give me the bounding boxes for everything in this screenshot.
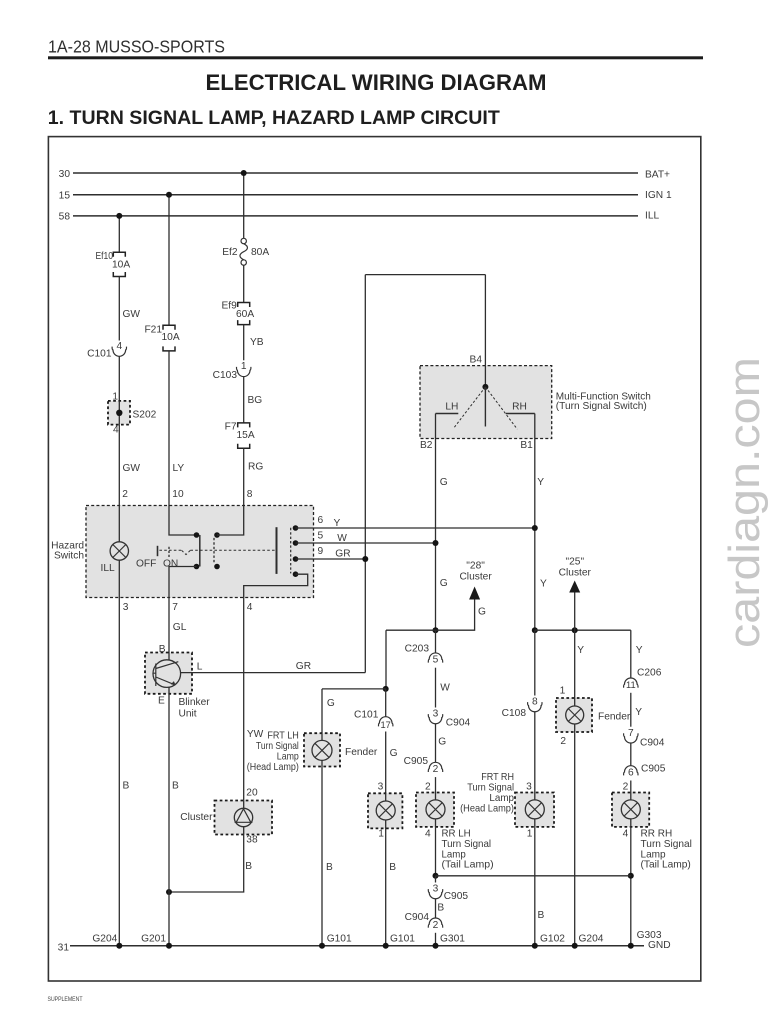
svg-text:80A: 80A: [251, 247, 269, 258]
svg-text:30: 30: [59, 169, 71, 180]
wire to RR LH tail lamp: [435, 777, 437, 800]
fuse Ef10 10A: [113, 252, 125, 276]
wire column1 from 58 line to fuse Ef10: [118, 216, 120, 252]
svg-text:G204: G204: [92, 933, 117, 944]
wire column3 from 30 line to fusible link Ef2: [243, 173, 245, 238]
svg-text:G: G: [438, 736, 446, 747]
svg-text:10A: 10A: [162, 332, 180, 343]
svg-text:G: G: [478, 607, 486, 618]
wire tail lamp ground tie: [436, 875, 631, 877]
ground G201: [166, 943, 172, 949]
svg-text:GL: GL: [173, 622, 187, 633]
RR RH turn signal lamp (tail lamp): [612, 793, 649, 827]
ground G101 fender: [319, 943, 325, 949]
ground bus 31: [70, 945, 644, 947]
svg-text:FRT RH: FRT RH: [481, 772, 514, 783]
svg-text:B: B: [172, 781, 179, 792]
svg-text:(Head Lamp): (Head Lamp): [247, 762, 299, 773]
hazard switch lever: [157, 546, 159, 556]
svg-text:GR: GR: [335, 549, 350, 560]
svg-text:GW: GW: [123, 309, 141, 320]
wire W below C203: [435, 668, 437, 708]
svg-text:(Tail Lamp): (Tail Lamp): [641, 860, 691, 871]
FRT RH turn signal lamp (head lamp): [515, 793, 554, 827]
svg-text:G102: G102: [540, 933, 565, 944]
hazard switch: [86, 506, 314, 598]
svg-text:BAT+: BAT+: [645, 169, 670, 180]
ground G301: [433, 943, 439, 949]
wire branch to LH fender lamp: [322, 688, 386, 690]
FRT LH turn signal lamp (head lamp): [368, 793, 402, 828]
cluster 25 arrow: [572, 627, 578, 633]
svg-text:Unit: Unit: [179, 709, 197, 720]
svg-text:BG: BG: [248, 395, 263, 406]
wire to RR RH tail lamp: [630, 781, 632, 801]
svg-text:10A: 10A: [112, 259, 130, 270]
svg-text:Y: Y: [636, 645, 643, 656]
svg-text:2: 2: [425, 782, 431, 793]
svg-text:(Turn Signal Switch): (Turn Signal Switch): [556, 401, 647, 412]
wire GR loop right vertical to turn signal switch B4: [484, 275, 486, 387]
svg-text:Blinker: Blinker: [179, 697, 211, 708]
svg-text:RR LH: RR LH: [442, 829, 471, 840]
svg-text:B: B: [245, 861, 252, 872]
hazard switch pin 7 contact to box bottom: [169, 567, 197, 598]
bus line 30 BAT+: [73, 172, 638, 174]
svg-text:C203: C203: [405, 644, 430, 655]
connector C108 pin 8: [534, 630, 536, 695]
svg-text:Fender: Fender: [345, 747, 378, 758]
svg-text:C108: C108: [502, 708, 527, 719]
svg-text:1: 1: [378, 829, 384, 840]
svg-text:(Tail Lamp): (Tail Lamp): [442, 860, 494, 871]
svg-text:G: G: [440, 578, 448, 589]
wire B to ground G101: [385, 820, 387, 946]
svg-text:6: 6: [628, 768, 634, 779]
turn signal switch LH contact B2: [436, 413, 459, 415]
hazard pin 9 wire GR to flasher loop: [296, 558, 366, 560]
svg-text:cardiagn.com: cardiagn.com: [720, 357, 768, 648]
svg-text:Lamp: Lamp: [489, 793, 514, 804]
wire from C101 to splice S202: [118, 357, 120, 401]
svg-text:GW: GW: [123, 463, 141, 474]
wire B from fender lamp to ground G101: [321, 760, 323, 945]
svg-text:1: 1: [527, 829, 533, 840]
svg-text:G204: G204: [579, 933, 604, 944]
wire B from cluster pin 38 to G201 column: [169, 827, 244, 892]
svg-text:3: 3: [433, 708, 439, 719]
svg-text:Ef2: Ef2: [222, 247, 238, 258]
connector C905 pin 3: [435, 876, 437, 883]
svg-text:ON: ON: [163, 558, 178, 569]
svg-text:F21: F21: [144, 325, 162, 336]
svg-text:C101: C101: [87, 349, 112, 360]
hazard pin 5 wire W to LH column: [296, 542, 436, 544]
svg-text:20: 20: [246, 788, 258, 799]
svg-text:IGN 1: IGN 1: [645, 190, 672, 201]
svg-text:10: 10: [172, 489, 184, 500]
connector C905 pin 6: [624, 766, 638, 776]
wire GW to hazard switch pin 2: [118, 425, 120, 506]
svg-text:F7: F7: [225, 421, 237, 432]
connector C203 pin 5: [435, 630, 437, 653]
svg-text:60A: 60A: [236, 309, 254, 320]
svg-text:3: 3: [378, 781, 384, 792]
hazard switch pin 4 path to box bottom: [244, 574, 308, 597]
svg-text:Cluster: Cluster: [459, 572, 492, 583]
svg-text:LY: LY: [173, 463, 185, 474]
svg-text:Turn Signal: Turn Signal: [641, 839, 692, 850]
svg-text:B: B: [437, 903, 444, 914]
wire GR loop left vertical: [364, 275, 366, 673]
svg-text:Cluster: Cluster: [180, 812, 213, 823]
connector C206 pin 11: [624, 678, 638, 688]
svg-text:(Head Lamp): (Head Lamp): [460, 803, 514, 814]
svg-text:7: 7: [172, 602, 178, 613]
svg-text:31: 31: [58, 942, 70, 953]
svg-text:RR RH: RR RH: [641, 829, 673, 840]
svg-text:ILL: ILL: [645, 210, 659, 221]
svg-text:1: 1: [560, 686, 566, 697]
svg-text:4: 4: [623, 829, 629, 840]
junction Y wire: [532, 627, 538, 633]
wire G below C904: [435, 724, 437, 762]
connector C904 pin 2: [428, 918, 442, 928]
wire GR loop top: [365, 274, 485, 276]
svg-text:C904: C904: [640, 737, 665, 748]
svg-text:9: 9: [318, 546, 324, 557]
wire RR LH lamp pin4 to tail ground junction: [435, 819, 437, 876]
svg-text:B: B: [538, 910, 545, 921]
ground G204 right: [572, 943, 578, 949]
svg-text:W: W: [440, 683, 450, 694]
svg-text:Fender: Fender: [598, 712, 631, 723]
bus line 15 IGN 1: [73, 194, 638, 196]
svg-text:G301: G301: [440, 933, 465, 944]
svg-text:Cluster: Cluster: [559, 567, 592, 578]
svg-text:Y: Y: [334, 518, 341, 529]
RR LH turn signal lamp (tail lamp): [416, 793, 454, 827]
svg-text:C904: C904: [446, 717, 471, 728]
svg-text:G101: G101: [390, 933, 415, 944]
svg-text:"25": "25": [566, 556, 585, 567]
svg-text:4: 4: [425, 829, 431, 840]
wire from fender lamp to ground G204: [574, 724, 576, 946]
svg-text:L: L: [197, 661, 203, 672]
svg-text:E: E: [158, 695, 165, 706]
svg-text:2: 2: [560, 736, 566, 747]
svg-text:5: 5: [318, 530, 324, 541]
fuse F7 15A: [238, 423, 250, 448]
svg-text:4: 4: [247, 602, 253, 613]
svg-text:YB: YB: [250, 337, 264, 348]
wire Y to RH fender lamp: [574, 630, 576, 706]
turn signal switch dashed positions LH RH: [454, 387, 486, 428]
fuse F21 10A: [163, 325, 175, 351]
svg-text:Y: Y: [577, 645, 584, 656]
svg-text:B: B: [123, 781, 130, 792]
svg-text:Lamp: Lamp: [277, 752, 299, 763]
connector C905 pin 2: [428, 762, 442, 772]
svg-text:Turn Signal: Turn Signal: [442, 839, 492, 850]
svg-text:B2: B2: [420, 440, 433, 451]
wire B to ground G102: [534, 819, 536, 946]
svg-text:S202: S202: [133, 409, 157, 420]
ground G303 GND: [628, 943, 634, 949]
svg-text:15A: 15A: [237, 430, 255, 441]
svg-text:B: B: [389, 862, 396, 873]
svg-text:Ef10: Ef10: [96, 251, 114, 262]
svg-text:2: 2: [623, 782, 629, 793]
svg-text:11: 11: [626, 680, 636, 690]
svg-text:1: 1: [241, 361, 247, 372]
svg-text:Y: Y: [537, 477, 544, 488]
wire branch to cluster 28 arrow: [386, 600, 475, 631]
wire L output GR to flasher loop: [181, 672, 366, 674]
svg-text:4: 4: [113, 425, 119, 436]
hazard switch ON bridge: [199, 535, 201, 567]
svg-text:YW: YW: [247, 729, 264, 740]
svg-text:C904: C904: [405, 912, 430, 923]
wire G to FRT LH head lamp: [385, 732, 387, 802]
svg-text:B: B: [326, 862, 333, 873]
svg-text:W: W: [337, 533, 347, 544]
svg-text:7: 7: [628, 728, 634, 739]
LH fender lamp: [304, 733, 340, 766]
wire GW below Ef10: [118, 277, 120, 341]
wire E to ground G201: [168, 687, 170, 945]
svg-text:8: 8: [532, 696, 538, 707]
header rule: [48, 56, 703, 59]
svg-text:C101: C101: [354, 709, 379, 720]
hazard switch ILL lamp: [118, 506, 120, 543]
svg-text:6: 6: [318, 515, 324, 526]
hazard switch contact pin 10 side: [169, 506, 197, 536]
svg-text:C103: C103: [213, 370, 238, 381]
wire B below C905: [435, 899, 437, 918]
svg-text:Ef9: Ef9: [222, 300, 238, 311]
svg-text:G: G: [390, 748, 398, 759]
wire LY to hazard switch pin 10: [168, 351, 170, 506]
junction G wire / cluster 28 branch: [433, 627, 439, 633]
svg-text:GR: GR: [296, 661, 311, 672]
svg-text:8: 8: [247, 489, 253, 500]
svg-text:38: 38: [246, 835, 258, 846]
fusible link Ef2 80A: [241, 238, 246, 243]
connector C101 pin 17: [385, 689, 387, 717]
svg-text:B4: B4: [470, 355, 483, 366]
svg-text:C905: C905: [444, 891, 469, 902]
svg-text:Switch: Switch: [54, 551, 84, 562]
wire to FRT RH head lamp: [534, 712, 536, 800]
wire hazard pin 3 to ground G204: [118, 560, 120, 946]
wire below C904: [630, 743, 632, 765]
svg-text:G: G: [440, 477, 448, 488]
svg-text:ELECTRICAL WIRING DIAGRAM: ELECTRICAL WIRING DIAGRAM: [206, 70, 547, 95]
svg-text:15: 15: [59, 190, 71, 201]
hazard switch output dashed link: [290, 528, 292, 574]
wire RG to hazard switch pin 8: [243, 448, 245, 505]
svg-text:Turn Signal: Turn Signal: [256, 741, 299, 752]
wire GL hazard pin7 to blinker unit: [168, 598, 170, 661]
RH fender lamp: [556, 698, 592, 732]
svg-text:3: 3: [123, 602, 129, 613]
hazard switch common bar: [276, 527, 278, 574]
hazard pin 6 wire Y to RH column: [296, 527, 535, 529]
svg-text:RG: RG: [248, 462, 263, 473]
svg-text:2: 2: [433, 920, 439, 931]
svg-text:OFF: OFF: [136, 558, 156, 569]
svg-text:C905: C905: [404, 756, 429, 767]
wire RR RH pin4 down to ground G303: [630, 819, 632, 946]
svg-text:58: 58: [59, 212, 71, 223]
wire YW hazard pin4 to cluster pin 20: [243, 598, 245, 809]
svg-text:C905: C905: [641, 763, 666, 774]
svg-text:RH: RH: [512, 401, 527, 412]
turn signal switch common pivot: [482, 384, 488, 390]
ground G101 head lamp: [383, 943, 389, 949]
svg-text:Y: Y: [635, 707, 642, 718]
wire Y down right branch: [630, 630, 632, 678]
hazard switch pin 8 contact: [217, 506, 244, 536]
wire G from B2 down to junction with W: [435, 414, 437, 631]
wire Y from B1 down: [534, 414, 536, 631]
svg-text:G: G: [327, 698, 335, 709]
wire Y branch to 25 cluster and RH lamps: [535, 629, 631, 631]
svg-text:FRT LH: FRT LH: [267, 731, 298, 742]
wire Y below C206: [630, 693, 632, 727]
diagram border frame: [48, 137, 700, 981]
svg-text:ILL: ILL: [101, 563, 115, 574]
svg-text:17: 17: [381, 720, 391, 730]
wire column2 from 15 line to fuse F21: [168, 195, 170, 326]
svg-text:G201: G201: [141, 933, 166, 944]
svg-text:3: 3: [433, 883, 439, 894]
svg-text:1A-28 MUSSO-SPORTS: 1A-28 MUSSO-SPORTS: [48, 36, 225, 56]
ground G204: [116, 943, 122, 949]
svg-text:2: 2: [122, 489, 128, 500]
svg-text:1. TURN SIGNAL LAMP, HAZARD LA: 1. TURN SIGNAL LAMP, HAZARD LAMP CIRCUIT: [48, 108, 500, 129]
wire BG to fuse F7: [243, 377, 245, 423]
wire YB below Ef9: [243, 325, 245, 361]
svg-text:GND: GND: [648, 940, 671, 951]
svg-text:5: 5: [433, 655, 439, 666]
svg-text:Turn Signal: Turn Signal: [467, 782, 514, 793]
hazard switch linkage dashed line: [159, 549, 181, 551]
svg-text:"28": "28": [466, 561, 485, 572]
bus line 58 ILL: [73, 215, 638, 217]
svg-text:G101: G101: [327, 933, 352, 944]
svg-text:LH: LH: [445, 401, 458, 412]
multi-function switch (turn signal switch): [420, 366, 552, 439]
wire G down to front LH junction: [385, 630, 387, 689]
svg-text:C206: C206: [637, 667, 662, 678]
svg-text:Y: Y: [540, 579, 547, 590]
fuse Ef9 60A: [238, 303, 250, 325]
hazard switch OFF bridge dashed: [213, 538, 215, 564]
svg-text:3: 3: [526, 781, 532, 792]
svg-text:4: 4: [116, 341, 122, 352]
ground G102: [532, 943, 538, 949]
wire Ef2 to fuse Ef9: [243, 265, 245, 302]
svg-text:2: 2: [433, 764, 439, 775]
turn signal switch RH contact B1: [506, 413, 535, 415]
svg-text:B1: B1: [520, 440, 533, 451]
svg-text:SUPPLEMENT: SUPPLEMENT: [48, 996, 83, 1003]
wire to ground G301: [435, 933, 437, 946]
